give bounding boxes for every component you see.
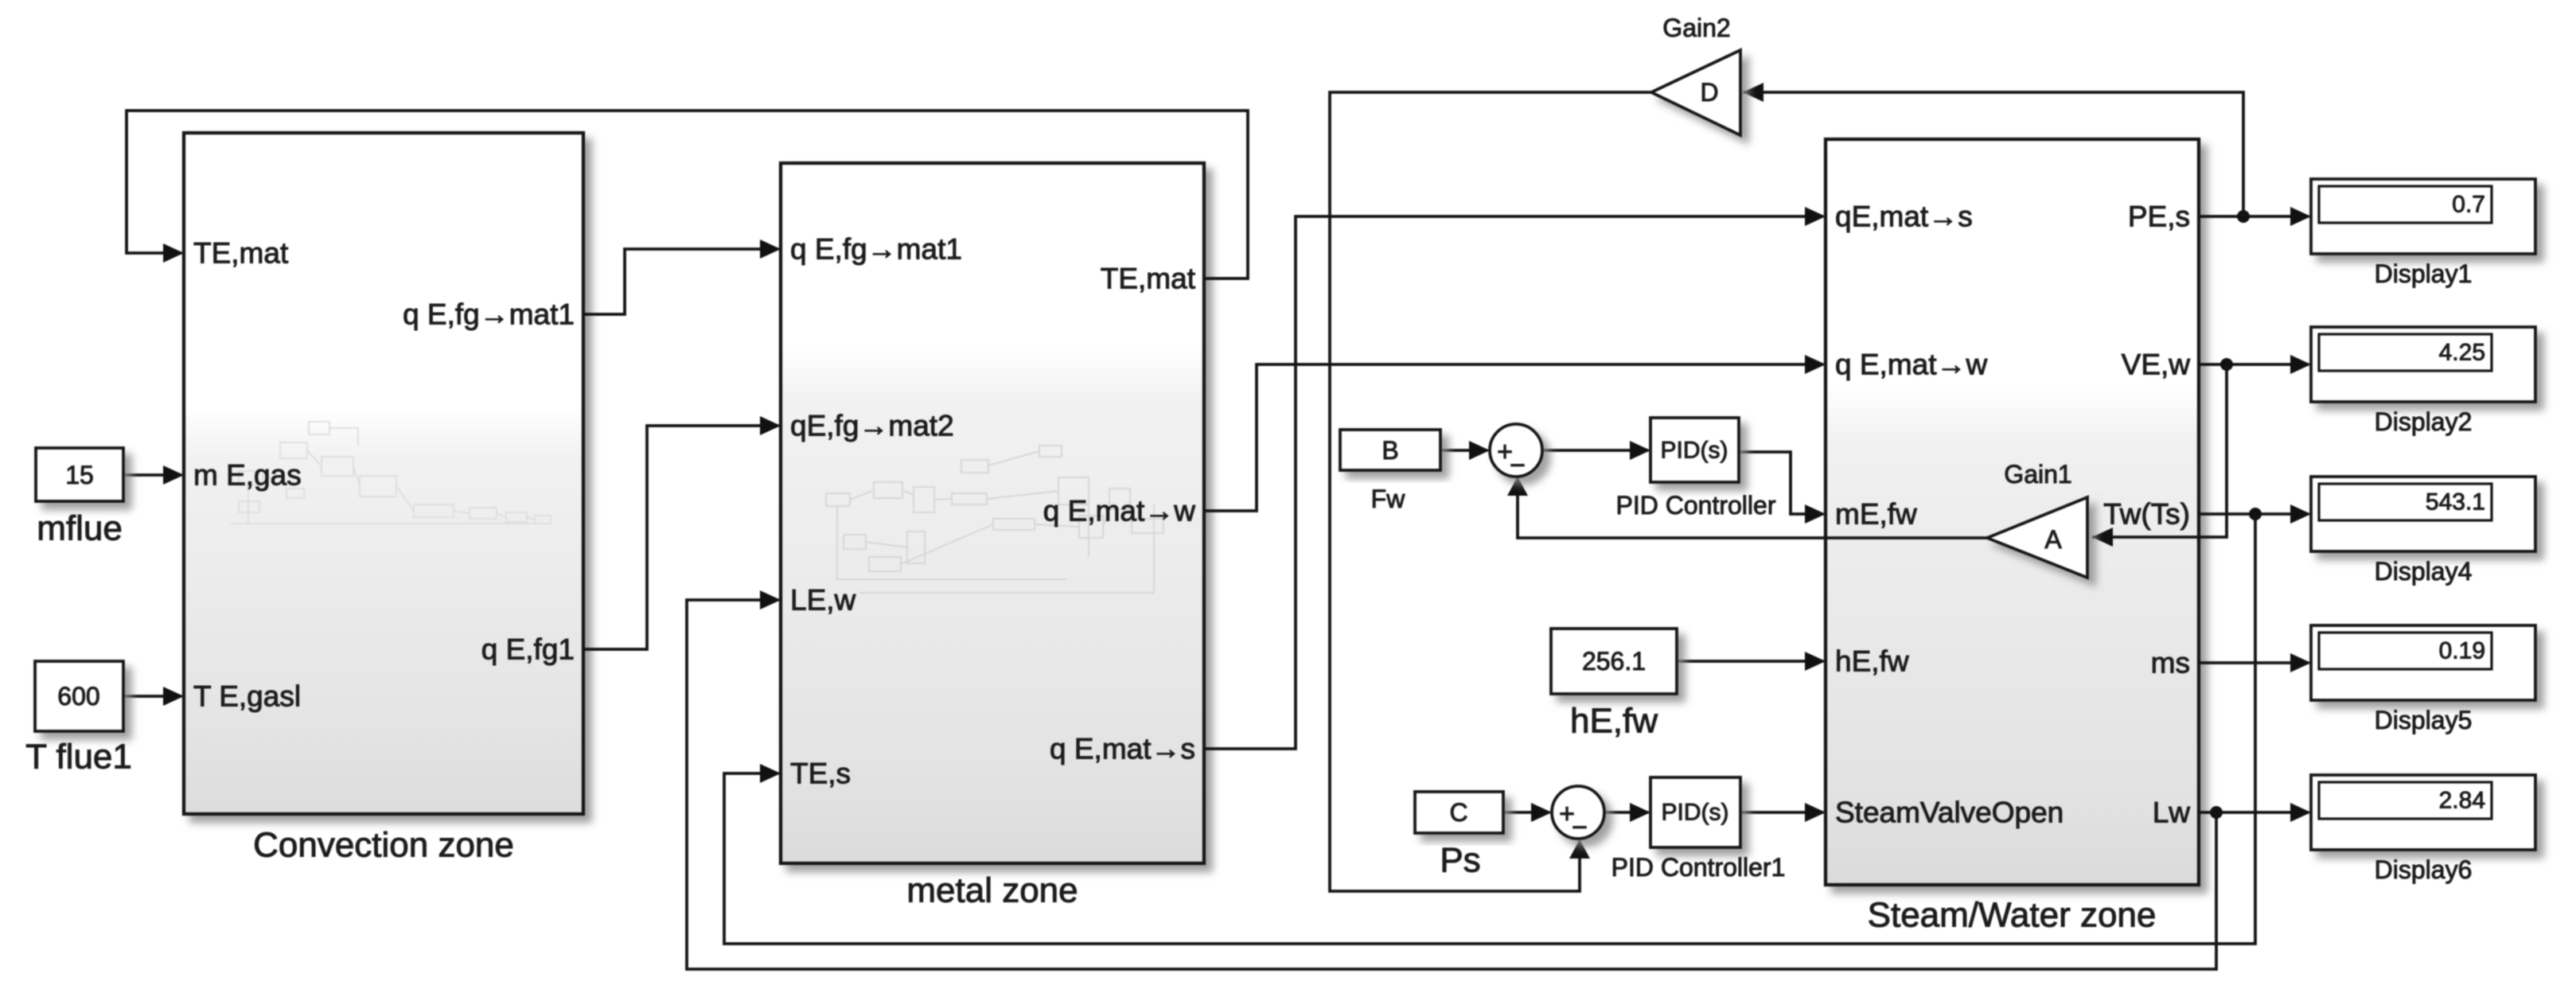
- sum junction Fw loop: [1490, 424, 1542, 481]
- label PID Controller: [1616, 491, 1776, 520]
- label Ps: [1440, 841, 1480, 880]
- svg-text:Lw: Lw: [2153, 796, 2191, 829]
- wire Gain2 output down and to sum junction of PID Controller1 loop: [1330, 92, 1651, 891]
- svg-text:T flue1: T flue1: [25, 738, 132, 777]
- svg-text:hE,fw: hE,fw: [1835, 645, 1909, 678]
- label mflue: [37, 509, 123, 548]
- port label LE,w (metal zone input 3): [790, 584, 856, 617]
- label Gain1: [2004, 460, 2071, 489]
- svg-text:Gain1: Gain1: [2004, 460, 2071, 489]
- constant block mflue value 15: [36, 448, 123, 501]
- label metal zone: [906, 871, 1078, 910]
- port label qE,mat→s (Steam/Water zone input 1): [1835, 201, 1973, 233]
- PID Controller1 block: [1650, 777, 1740, 847]
- gain block Gain1 value A: [1987, 497, 2087, 578]
- port label SteamValveOpen (Steam/Water zone input 5): [1835, 796, 2064, 829]
- wire constant 256.1 to Steam/Water zone hE,fw input: [1677, 652, 1826, 671]
- sum junction Ps loop: [1552, 786, 1604, 843]
- svg-text:q E,mat→w: q E,mat→w: [1043, 495, 1195, 528]
- svg-text:q E,mat→s: q E,mat→s: [1050, 733, 1195, 765]
- port label q E,fg→mat1 (Convection zone output 1): [403, 298, 575, 331]
- svg-text:600: 600: [57, 682, 99, 711]
- wire Ps sum junction to PID Controller1: [1604, 803, 1650, 822]
- wire Tw(Ts) output to Display4 with junction: [2199, 504, 2311, 524]
- port label q E,fg→mat1 (metal zone input 1): [790, 233, 962, 266]
- svg-text:q E,mat→w: q E,mat→w: [1835, 349, 1987, 381]
- constant block T flue1 value 600: [35, 661, 123, 731]
- label hE,fw: [1570, 702, 1658, 741]
- label PID Controller1: [1611, 853, 1786, 882]
- display block Display4 value 543.1: [2311, 477, 2535, 551]
- port label Tw(Ts) (Steam/Water zone output 3): [2103, 498, 2190, 531]
- subsystem block metal zone: [781, 163, 1204, 863]
- wire PID Controller output to Steam/Water zone mE,fw input: [1739, 452, 1826, 524]
- svg-text:A: A: [2044, 525, 2062, 554]
- port label m E,gas (Convection zone input 2): [193, 459, 302, 492]
- wire q E,fg1: Convection zone output to metal zone qE,fg->mat2 input: [583, 416, 781, 649]
- svg-text:Steam/Water zone: Steam/Water zone: [1868, 896, 2157, 935]
- svg-text:Display6: Display6: [2375, 855, 2473, 884]
- port label TE,s (metal zone input 4): [790, 757, 851, 790]
- svg-text:−: −: [1510, 450, 1526, 481]
- port label ms (Steam/Water zone output 4): [2151, 647, 2190, 680]
- svg-text:Display4: Display4: [2375, 557, 2473, 586]
- wire VE,w junction down and left to Gain1 input: [2092, 364, 2227, 547]
- display block Display6 value 2.84: [2311, 775, 2535, 850]
- wire constant B to Fw sum junction: [1440, 441, 1490, 460]
- svg-text:mE,fw: mE,fw: [1835, 498, 1917, 531]
- svg-text:0.7: 0.7: [2452, 192, 2485, 218]
- metal zone internal watermark sketch: [826, 446, 1163, 593]
- wire PE,s output to Display1 with junction: [2199, 207, 2311, 226]
- wire q E,mat->w: metal zone output to Steam/Water zone input: [1204, 355, 1826, 511]
- svg-text:Fw: Fw: [1371, 485, 1406, 513]
- svg-text:PID Controller1: PID Controller1: [1611, 853, 1786, 882]
- svg-text:q E,fg1: q E,fg1: [481, 633, 575, 666]
- svg-text:TE,mat: TE,mat: [1101, 263, 1196, 295]
- svg-text:15: 15: [65, 461, 94, 489]
- svg-text:qE,mat→s: qE,mat→s: [1835, 201, 1973, 233]
- wire constant C to Ps sum junction: [1503, 803, 1552, 822]
- svg-text:TE,s: TE,s: [790, 757, 851, 790]
- svg-text:PID(s): PID(s): [1662, 800, 1729, 826]
- svg-text:Ps: Ps: [1440, 841, 1480, 880]
- port label VE,w (Steam/Water zone output 2): [2122, 349, 2191, 381]
- svg-text:q E,fg→mat1: q E,fg→mat1: [790, 233, 962, 266]
- wire q E,mat->s: metal zone output to Steam/Water zone qE,mat->s input: [1204, 207, 1826, 749]
- wire Gain1 output left and up to Fw sum junction: [1507, 477, 1987, 538]
- constant block Ps value C: [1415, 792, 1503, 833]
- label Display6: [2375, 855, 2473, 884]
- svg-text:qE,fg→mat2: qE,fg→mat2: [790, 410, 954, 442]
- svg-text:2.84: 2.84: [2439, 788, 2485, 814]
- wire Lw output to Display6 with junction: [2199, 803, 2311, 822]
- PID Controller block: [1650, 418, 1739, 482]
- display block Display1 value 0.7: [2311, 179, 2535, 254]
- label Convection zone: [253, 826, 514, 865]
- svg-text:SteamValveOpen: SteamValveOpen: [1835, 796, 2064, 829]
- label Gain2: [1662, 14, 1730, 42]
- svg-text:m E,gas: m E,gas: [193, 459, 302, 492]
- svg-text:Display2: Display2: [2375, 407, 2473, 436]
- port label qE,fg→mat2 (metal zone input 2): [790, 410, 954, 442]
- port label q E,fg1 (Convection zone output 2): [481, 633, 575, 666]
- wire q E,fg->mat1: Convection zone output to metal zone input: [583, 240, 781, 314]
- label T flue1: [25, 738, 132, 777]
- svg-text:q E,fg→mat1: q E,fg→mat1: [403, 298, 575, 331]
- svg-text:T E,gasl: T E,gasl: [193, 680, 301, 713]
- Convection zone internal watermark sketch: [231, 422, 551, 524]
- wire ms output to Display5: [2199, 653, 2311, 672]
- label Display5: [2375, 706, 2473, 734]
- subsystem block Convection zone: [184, 133, 583, 814]
- svg-text:Gain2: Gain2: [1662, 14, 1730, 42]
- wire Tw(Ts) feedback down, left and up to metal zone TE,s input: [724, 514, 2255, 944]
- svg-text:VE,w: VE,w: [2122, 349, 2191, 381]
- label Display1: [2375, 259, 2473, 288]
- svg-text:Tw(Ts): Tw(Ts): [2103, 498, 2190, 531]
- port label TE,mat (metal zone output 1): [1101, 263, 1196, 295]
- svg-text:D: D: [1700, 78, 1718, 107]
- gain block Gain2 value D: [1651, 50, 1740, 135]
- label Display2: [2375, 407, 2473, 436]
- svg-text:0.19: 0.19: [2439, 638, 2485, 664]
- constant block Fw value B: [1340, 430, 1440, 470]
- label Steam/Water zone: [1868, 896, 2157, 935]
- port label hE,fw (Steam/Water zone input 4): [1835, 645, 1909, 678]
- wire VE,w output to Display2 with junction: [2199, 355, 2311, 374]
- wire Fw sum junction to PID Controller: [1542, 441, 1650, 460]
- svg-text:543.1: 543.1: [2426, 489, 2485, 516]
- svg-text:hE,fw: hE,fw: [1570, 702, 1658, 741]
- label Fw: [1371, 485, 1406, 513]
- wire TE,mat feedback: metal zone TE,mat output to Convection zone TE,mat input: [127, 111, 1248, 278]
- wire Lw feedback down, left and up to metal zone LE,w input: [687, 590, 2216, 969]
- svg-text:PID(s): PID(s): [1661, 438, 1728, 464]
- wire constant mflue to Convection zone m E,gas input: [123, 465, 184, 485]
- svg-text:B: B: [1382, 436, 1398, 465]
- port label q E,mat→w (Steam/Water zone input 2): [1835, 349, 1987, 381]
- svg-text:C: C: [1449, 798, 1467, 827]
- svg-text:4.25: 4.25: [2439, 340, 2485, 366]
- svg-text:Display1: Display1: [2375, 259, 2473, 288]
- port label T E,gasl (Convection zone input 3): [193, 680, 301, 713]
- svg-text:mflue: mflue: [37, 509, 123, 548]
- display block Display5 value 0.19: [2311, 625, 2535, 700]
- constant block hE,fw value 256.1: [1551, 629, 1677, 694]
- svg-text:PID Controller: PID Controller: [1616, 491, 1776, 520]
- port label mE,fw (Steam/Water zone input 3): [1835, 498, 1917, 531]
- port label PE,s (Steam/Water zone output 1): [2128, 201, 2190, 233]
- wire constant T flue1 to Convection zone T E,gasl input: [123, 687, 184, 706]
- port label Lw (Steam/Water zone output 5): [2153, 796, 2191, 829]
- svg-text:ms: ms: [2151, 647, 2190, 680]
- svg-text:TE,mat: TE,mat: [193, 237, 289, 270]
- svg-text:256.1: 256.1: [1582, 647, 1646, 676]
- svg-text:−: −: [1572, 812, 1588, 843]
- wire PE,s junction up and left to Gain2 input: [1743, 83, 2243, 216]
- svg-text:Display5: Display5: [2375, 706, 2473, 734]
- display block Display2 value 4.25: [2311, 327, 2535, 402]
- wire PID Controller1 output to Steam/Water zone SteamValveOpen input: [1740, 803, 1826, 822]
- svg-text:LE,w: LE,w: [790, 584, 856, 617]
- svg-text:PE,s: PE,s: [2128, 201, 2190, 233]
- port label q E,mat→w (metal zone output 2): [1043, 495, 1195, 528]
- subsystem block Steam/Water zone: [1826, 139, 2199, 885]
- svg-text:Convection zone: Convection zone: [253, 826, 514, 865]
- port label TE,mat (Convection zone input 1): [193, 237, 289, 270]
- label Display4: [2375, 557, 2473, 586]
- svg-text:metal zone: metal zone: [906, 871, 1078, 910]
- port label q E,mat→s (metal zone output 3): [1050, 733, 1195, 765]
